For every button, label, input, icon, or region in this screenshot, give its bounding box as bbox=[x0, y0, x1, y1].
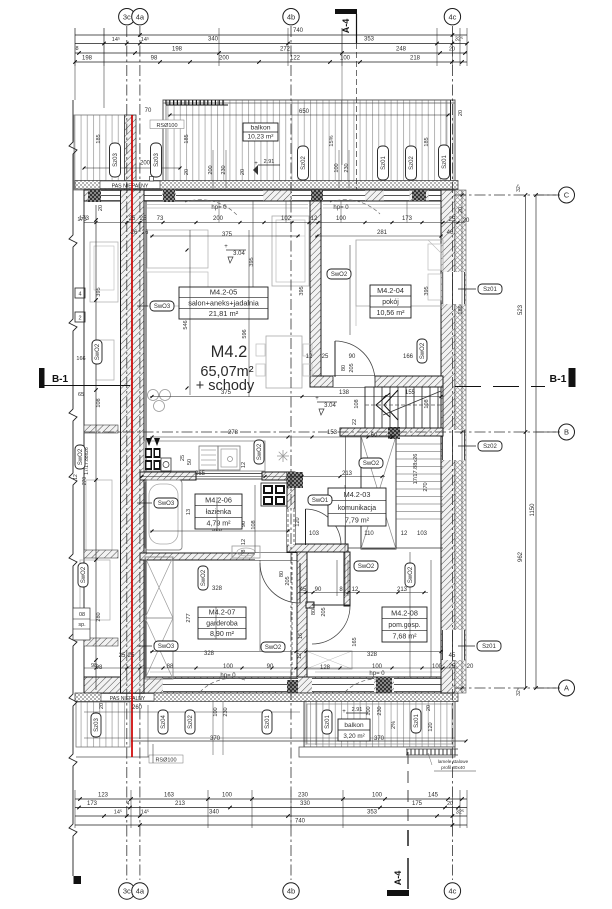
svg-text:370: 370 bbox=[210, 736, 221, 742]
svg-text:102: 102 bbox=[281, 216, 292, 222]
svg-text:26: 26 bbox=[131, 230, 138, 236]
svg-text:3.04: 3.04 bbox=[324, 403, 336, 409]
svg-text:Sz02: Sz02 bbox=[483, 444, 497, 450]
svg-text:SwO2: SwO2 bbox=[257, 443, 263, 460]
svg-text:+ schody: + schody bbox=[196, 378, 255, 394]
svg-text:108: 108 bbox=[96, 398, 102, 407]
svg-text:270: 270 bbox=[82, 477, 88, 486]
svg-text:SwO3: SwO3 bbox=[154, 304, 171, 310]
svg-text:213: 213 bbox=[175, 801, 186, 807]
svg-text:4c: 4c bbox=[448, 12, 456, 21]
svg-text:278: 278 bbox=[228, 430, 239, 436]
svg-text:balkon: balkon bbox=[250, 124, 270, 131]
svg-text:komunikacja: komunikacja bbox=[338, 505, 376, 512]
svg-text:175: 175 bbox=[412, 801, 423, 807]
svg-text:B-1: B-1 bbox=[52, 374, 69, 385]
svg-text:213: 213 bbox=[342, 471, 353, 477]
svg-text:7,79 m²: 7,79 m² bbox=[345, 516, 370, 524]
svg-text:8: 8 bbox=[241, 549, 247, 552]
svg-text:hp= 0: hp= 0 bbox=[369, 671, 385, 677]
svg-text:205: 205 bbox=[285, 576, 291, 585]
svg-text:B: B bbox=[564, 428, 569, 437]
svg-text:Sz01: Sz01 bbox=[265, 715, 271, 729]
svg-text:M4.2-05: M4.2-05 bbox=[210, 288, 238, 297]
svg-text:173: 173 bbox=[79, 216, 90, 222]
svg-text:50: 50 bbox=[187, 459, 193, 465]
svg-text:B-1: B-1 bbox=[550, 373, 567, 385]
svg-text:SwO2: SwO2 bbox=[363, 461, 380, 467]
svg-text:21,81 m²: 21,81 m² bbox=[209, 309, 239, 318]
svg-text:15%: 15% bbox=[329, 135, 335, 146]
svg-text:65: 65 bbox=[78, 392, 84, 398]
svg-text:740: 740 bbox=[293, 28, 304, 34]
svg-text:14⁵: 14⁵ bbox=[141, 36, 149, 43]
svg-text:205: 205 bbox=[349, 363, 355, 372]
svg-text:+: + bbox=[315, 396, 319, 402]
svg-text:Sz02: Sz02 bbox=[188, 715, 194, 729]
svg-text:185: 185 bbox=[184, 134, 190, 143]
svg-text:120: 120 bbox=[428, 722, 434, 731]
svg-text:Sz01: Sz01 bbox=[381, 156, 387, 170]
svg-text:370: 370 bbox=[374, 736, 385, 742]
svg-text:Sz02: Sz02 bbox=[409, 156, 415, 170]
svg-text:173: 173 bbox=[402, 216, 413, 222]
svg-text:14⁵: 14⁵ bbox=[114, 809, 122, 816]
svg-text:3,20 m²: 3,20 m² bbox=[343, 733, 364, 740]
svg-text:SwO2: SwO2 bbox=[331, 272, 348, 278]
svg-text:218: 218 bbox=[410, 56, 421, 62]
svg-text:3c: 3c bbox=[123, 12, 131, 21]
svg-text:25: 25 bbox=[449, 217, 456, 223]
svg-text:pokój: pokój bbox=[382, 299, 399, 306]
svg-text:Sz02: Sz02 bbox=[301, 156, 307, 170]
svg-text:+: + bbox=[224, 244, 228, 250]
svg-text:4c: 4c bbox=[448, 887, 456, 896]
svg-text:25: 25 bbox=[119, 653, 126, 659]
svg-text:70: 70 bbox=[145, 108, 152, 114]
svg-text:25: 25 bbox=[129, 216, 136, 222]
svg-text:166: 166 bbox=[76, 356, 85, 362]
svg-text:12: 12 bbox=[241, 462, 247, 468]
svg-text:Sz03: Sz03 bbox=[154, 153, 160, 167]
svg-text:395: 395 bbox=[424, 286, 430, 295]
svg-text:10,23 m²: 10,23 m² bbox=[247, 133, 274, 140]
svg-text:108: 108 bbox=[354, 399, 360, 408]
svg-text:4b: 4b bbox=[287, 12, 295, 21]
svg-text:185: 185 bbox=[424, 137, 430, 146]
svg-text:25: 25 bbox=[449, 664, 456, 670]
svg-text:328: 328 bbox=[212, 586, 223, 592]
svg-text:100: 100 bbox=[222, 793, 233, 799]
svg-text:108: 108 bbox=[251, 520, 257, 529]
svg-text:328: 328 bbox=[367, 652, 378, 658]
svg-text:173: 173 bbox=[87, 801, 98, 807]
svg-text:98: 98 bbox=[96, 665, 103, 671]
svg-text:100: 100 bbox=[213, 707, 219, 716]
svg-text:25: 25 bbox=[322, 354, 329, 360]
svg-text:340: 340 bbox=[208, 37, 219, 43]
svg-text:4: 4 bbox=[78, 292, 81, 298]
svg-text:100: 100 bbox=[336, 216, 347, 222]
svg-text:277: 277 bbox=[186, 613, 192, 622]
svg-text:546: 546 bbox=[183, 320, 189, 329]
svg-text:SwO2: SwO2 bbox=[78, 448, 84, 465]
svg-text:SwO2: SwO2 bbox=[95, 343, 101, 360]
svg-text:Sz03: Sz03 bbox=[113, 153, 119, 167]
svg-text:128: 128 bbox=[320, 665, 331, 671]
svg-text:80: 80 bbox=[279, 571, 285, 577]
svg-text:20: 20 bbox=[99, 703, 105, 709]
svg-text:Sz01: Sz01 bbox=[483, 287, 497, 293]
svg-text:740: 740 bbox=[295, 819, 306, 825]
svg-text:20: 20 bbox=[458, 110, 464, 116]
svg-text:73: 73 bbox=[157, 216, 164, 222]
svg-text:200: 200 bbox=[219, 56, 230, 62]
svg-text:08: 08 bbox=[79, 612, 85, 618]
svg-text:395: 395 bbox=[96, 287, 102, 296]
svg-text:2.91: 2.91 bbox=[352, 707, 363, 713]
svg-text:RSØ100: RSØ100 bbox=[155, 757, 176, 763]
svg-text:20: 20 bbox=[447, 801, 453, 807]
svg-text:200: 200 bbox=[213, 216, 224, 222]
svg-text:25: 25 bbox=[128, 653, 135, 659]
svg-text:2.91: 2.91 bbox=[264, 159, 275, 165]
svg-text:20: 20 bbox=[184, 169, 190, 175]
svg-text:198: 198 bbox=[82, 56, 93, 62]
svg-text:100: 100 bbox=[366, 706, 372, 715]
svg-text:12: 12 bbox=[306, 354, 313, 360]
svg-text:200: 200 bbox=[208, 165, 214, 174]
svg-text:A: A bbox=[564, 684, 569, 693]
svg-text:230: 230 bbox=[298, 793, 309, 799]
svg-text:45: 45 bbox=[449, 653, 456, 659]
svg-text:2%: 2% bbox=[391, 721, 397, 729]
svg-text:962: 962 bbox=[518, 551, 524, 562]
svg-text:SwO1: SwO1 bbox=[312, 498, 329, 504]
svg-text:12: 12 bbox=[352, 587, 359, 593]
svg-text:12: 12 bbox=[297, 653, 303, 659]
svg-text:100: 100 bbox=[372, 793, 383, 799]
svg-text:260: 260 bbox=[132, 705, 143, 711]
svg-text:375: 375 bbox=[222, 232, 233, 238]
svg-text:12: 12 bbox=[311, 216, 318, 222]
svg-text:Sz01: Sz01 bbox=[482, 644, 496, 650]
svg-text:sp.: sp. bbox=[78, 622, 86, 628]
svg-text:80: 80 bbox=[341, 365, 347, 371]
svg-text:45: 45 bbox=[300, 587, 307, 593]
svg-text:100: 100 bbox=[223, 664, 234, 670]
svg-text:100: 100 bbox=[372, 664, 383, 670]
svg-text:281: 281 bbox=[377, 230, 388, 236]
svg-text:+: + bbox=[342, 709, 346, 715]
svg-text:32⁵: 32⁵ bbox=[516, 688, 522, 696]
svg-text:PAS NIEPALNY: PAS NIEPALNY bbox=[112, 183, 149, 189]
svg-text:90: 90 bbox=[349, 354, 356, 360]
svg-text:SwO3: SwO3 bbox=[158, 501, 175, 507]
svg-text:14⁵: 14⁵ bbox=[112, 36, 120, 43]
svg-text:270: 270 bbox=[423, 482, 429, 491]
svg-text:SwO3: SwO3 bbox=[158, 644, 175, 650]
svg-text:M4.2-07: M4.2-07 bbox=[209, 608, 236, 617]
svg-text:1150: 1150 bbox=[530, 503, 536, 517]
svg-text:SwO2: SwO2 bbox=[420, 342, 426, 359]
svg-text:328: 328 bbox=[204, 651, 215, 657]
svg-text:186: 186 bbox=[458, 305, 464, 314]
svg-text:32⁵: 32⁵ bbox=[516, 184, 522, 192]
svg-text:12: 12 bbox=[401, 531, 408, 537]
svg-text:2: 2 bbox=[78, 316, 81, 322]
svg-text:230: 230 bbox=[344, 163, 350, 172]
svg-text:20: 20 bbox=[463, 218, 470, 224]
svg-text:200: 200 bbox=[140, 161, 151, 167]
svg-text:M4.2: M4.2 bbox=[211, 343, 248, 361]
svg-text:4a: 4a bbox=[136, 12, 145, 21]
svg-text:165: 165 bbox=[352, 637, 358, 646]
svg-text:230: 230 bbox=[377, 706, 383, 715]
svg-text:25: 25 bbox=[140, 216, 147, 222]
svg-text:20: 20 bbox=[467, 664, 474, 670]
svg-text:88: 88 bbox=[167, 664, 174, 670]
svg-text:163: 163 bbox=[164, 793, 175, 799]
svg-text:22: 22 bbox=[352, 419, 358, 425]
svg-text:20: 20 bbox=[240, 169, 246, 175]
svg-text:100: 100 bbox=[340, 56, 351, 62]
svg-text:98: 98 bbox=[151, 56, 158, 62]
svg-text:Sz01: Sz01 bbox=[414, 714, 420, 728]
svg-text:166: 166 bbox=[403, 354, 414, 360]
svg-text:103: 103 bbox=[309, 531, 320, 537]
svg-text:8: 8 bbox=[75, 46, 78, 52]
svg-text:PAS NIEPALNY: PAS NIEPALNY bbox=[110, 696, 146, 702]
svg-text:395: 395 bbox=[249, 257, 255, 266]
svg-text:3c: 3c bbox=[123, 887, 131, 896]
svg-text:100: 100 bbox=[334, 163, 340, 172]
svg-text:20: 20 bbox=[449, 47, 455, 53]
svg-text:Sz03: Sz03 bbox=[94, 718, 100, 732]
svg-text:230: 230 bbox=[223, 707, 229, 716]
svg-text:profil 80x40: profil 80x40 bbox=[441, 765, 465, 770]
svg-text:A-4: A-4 bbox=[393, 871, 403, 886]
svg-text:garderoba: garderoba bbox=[206, 620, 238, 627]
svg-text:213: 213 bbox=[397, 587, 408, 593]
svg-text:272: 272 bbox=[280, 47, 291, 53]
svg-text:185: 185 bbox=[96, 134, 102, 143]
svg-text:4,79 m²: 4,79 m² bbox=[206, 520, 231, 528]
svg-text:hp= 0: hp= 0 bbox=[333, 205, 349, 211]
svg-text:90: 90 bbox=[315, 587, 322, 593]
svg-text:90: 90 bbox=[267, 664, 274, 670]
svg-text:265: 265 bbox=[195, 471, 206, 477]
svg-text:M4.2-03: M4.2-03 bbox=[344, 490, 371, 499]
svg-text:230: 230 bbox=[221, 165, 227, 174]
svg-text:4a: 4a bbox=[136, 887, 145, 896]
svg-text:26: 26 bbox=[142, 230, 149, 236]
svg-text:SwO2: SwO2 bbox=[408, 566, 414, 583]
svg-text:103: 103 bbox=[417, 531, 428, 537]
svg-text:155: 155 bbox=[405, 390, 416, 396]
svg-text:SwO2: SwO2 bbox=[265, 645, 282, 651]
svg-text:RSØ100: RSØ100 bbox=[156, 123, 177, 129]
svg-text:650: 650 bbox=[299, 109, 310, 115]
svg-text:330: 330 bbox=[300, 801, 311, 807]
svg-text:596: 596 bbox=[242, 329, 248, 338]
svg-text:153: 153 bbox=[327, 430, 338, 436]
svg-text:pom.gosp.: pom.gosp. bbox=[388, 622, 420, 629]
svg-text:138: 138 bbox=[339, 390, 350, 396]
svg-text:248: 248 bbox=[396, 47, 407, 53]
svg-text:8,90 m²: 8,90 m² bbox=[210, 630, 235, 638]
svg-text:Sz04: Sz04 bbox=[161, 715, 167, 729]
svg-text:60: 60 bbox=[371, 433, 378, 439]
svg-text:353: 353 bbox=[364, 37, 375, 43]
svg-text:M4.2-08: M4.2-08 bbox=[391, 608, 418, 617]
svg-text:3.04: 3.04 bbox=[233, 251, 245, 257]
svg-text:13: 13 bbox=[186, 509, 192, 515]
svg-text:395: 395 bbox=[299, 286, 305, 295]
svg-text:14⁵: 14⁵ bbox=[141, 809, 149, 816]
svg-text:12: 12 bbox=[241, 539, 247, 545]
svg-text:20: 20 bbox=[426, 705, 432, 711]
svg-text:10,56 m²: 10,56 m² bbox=[377, 309, 406, 317]
svg-text:353: 353 bbox=[367, 810, 378, 816]
svg-text:80: 80 bbox=[311, 609, 317, 615]
svg-text:łazienka: łazienka bbox=[206, 509, 231, 516]
svg-text:123: 123 bbox=[98, 793, 109, 799]
svg-text:25: 25 bbox=[180, 455, 186, 461]
svg-text:4: 4 bbox=[127, 801, 130, 807]
svg-text:20: 20 bbox=[458, 207, 464, 213]
svg-text:120: 120 bbox=[295, 517, 301, 526]
svg-text:M4.2-06: M4.2-06 bbox=[205, 495, 232, 504]
svg-text:100: 100 bbox=[432, 664, 443, 670]
svg-text:205: 205 bbox=[321, 607, 327, 616]
svg-text:32⁵: 32⁵ bbox=[455, 36, 463, 43]
svg-text:7,68 m²: 7,68 m² bbox=[392, 633, 417, 641]
svg-text:145: 145 bbox=[428, 793, 439, 799]
svg-text:Sz01: Sz01 bbox=[325, 715, 331, 729]
svg-text:17/17.88x26: 17/17.88x26 bbox=[413, 454, 419, 485]
svg-text:M4.2-04: M4.2-04 bbox=[377, 286, 404, 295]
svg-text:SwO2: SwO2 bbox=[81, 566, 87, 583]
svg-text:523: 523 bbox=[518, 304, 524, 315]
svg-text:SwO2: SwO2 bbox=[358, 564, 375, 570]
svg-text:C: C bbox=[564, 191, 570, 200]
svg-text:20: 20 bbox=[98, 205, 104, 211]
svg-text:4b: 4b bbox=[287, 887, 295, 896]
svg-text:hp= 0: hp= 0 bbox=[211, 205, 227, 211]
svg-text:SwO2: SwO2 bbox=[201, 569, 207, 586]
svg-text:Sz01: Sz01 bbox=[442, 155, 448, 169]
svg-text:16: 16 bbox=[298, 633, 304, 639]
svg-text:108: 108 bbox=[424, 399, 430, 408]
svg-text:46: 46 bbox=[447, 230, 454, 236]
svg-text:340: 340 bbox=[209, 810, 220, 816]
svg-text:lamele stalowe: lamele stalowe bbox=[438, 759, 469, 764]
svg-text:12: 12 bbox=[73, 474, 79, 480]
svg-text:280: 280 bbox=[96, 612, 102, 621]
svg-text:A-4: A-4 bbox=[341, 19, 351, 34]
svg-text:122: 122 bbox=[290, 56, 301, 62]
svg-text:110: 110 bbox=[364, 531, 374, 537]
svg-text:32⁵: 32⁵ bbox=[456, 809, 464, 816]
svg-text:balkon: balkon bbox=[344, 722, 364, 729]
svg-text:hp= 0: hp= 0 bbox=[220, 673, 236, 679]
svg-text:198: 198 bbox=[172, 47, 183, 53]
